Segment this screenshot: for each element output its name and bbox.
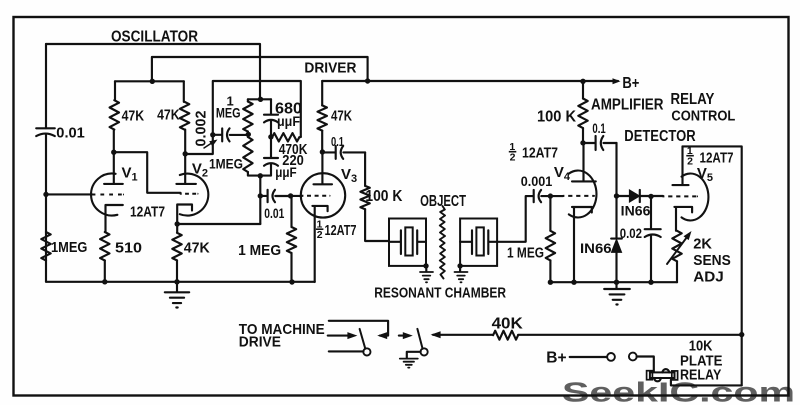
node G 0.002 junction <box>210 132 215 137</box>
svg-text:B+: B+ <box>622 75 639 92</box>
node line B / 47K rail <box>150 79 155 84</box>
svg-text:μμF: μμF <box>277 113 300 129</box>
svg-text:0.01: 0.01 <box>264 205 284 221</box>
tube V3 cathode <box>312 206 327 282</box>
resistor 1 MEG feedback lower <box>247 134 249 137</box>
resistor 1 MEG feedback upper <box>258 97 263 102</box>
capacitor 220 uuF <box>270 137 272 158</box>
node B feedback bottom <box>258 173 263 178</box>
switch S2 pivot and blade <box>421 348 428 355</box>
node V2 cathode <box>175 221 180 226</box>
tube V1 grid (dashed) <box>93 194 123 196</box>
svg-text:IN66: IN66 <box>580 240 612 256</box>
tube V2 grid (dashed) <box>181 193 198 195</box>
svg-text:1 MEG: 1 MEG <box>507 246 544 262</box>
svg-text:SENS: SENS <box>693 252 731 269</box>
tube V5 envelope <box>682 174 709 221</box>
tube V1 plate <box>104 183 123 185</box>
svg-text:DRIVE: DRIVE <box>239 333 281 350</box>
resistor 470K <box>272 133 299 141</box>
capacitor 0.002 coupling <box>213 134 222 136</box>
svg-text:RESONANT CHAMBER: RESONANT CHAMBER <box>374 286 506 302</box>
diode 1N66 shunt <box>615 196 617 238</box>
svg-text:RELAY: RELAY <box>680 366 721 383</box>
svg-text:47K: 47K <box>157 107 180 124</box>
object wavy wall <box>440 206 445 279</box>
tube V2 envelope <box>180 174 209 216</box>
node V3 plate <box>320 149 325 154</box>
leader arrow 0.002 <box>204 142 214 149</box>
tube V3 grid (dashed) <box>302 195 330 197</box>
tube V3 envelope <box>301 173 345 217</box>
switch S1 pivot and blade <box>363 348 370 355</box>
svg-text:ADJ: ADJ <box>693 268 724 285</box>
svg-text:0.02: 0.02 <box>620 225 642 241</box>
wire B+ rail <box>322 80 618 82</box>
node right box ground <box>457 263 462 268</box>
svg-text:100 K: 100 K <box>537 109 576 126</box>
svg-text:1MEG: 1MEG <box>209 156 243 172</box>
ground left box <box>425 266 427 272</box>
node diode junction <box>614 193 619 198</box>
wire V5 plate to relay rail <box>683 146 742 385</box>
node V3 grid <box>288 193 293 198</box>
node V4 grid <box>548 193 553 198</box>
svg-text:510: 510 <box>115 240 142 257</box>
wire chamber output <box>497 196 533 242</box>
svg-text:47K: 47K <box>184 240 210 257</box>
wire V3 grid lead <box>291 195 302 197</box>
relay contact right <box>629 353 637 361</box>
capacitor 0.1 V4 output <box>583 142 595 144</box>
wire oscillator ground rail <box>46 281 315 283</box>
capacitor 0.02 <box>650 196 652 229</box>
node V4 plate <box>580 140 585 145</box>
tube V4 cathode <box>572 207 592 282</box>
resistor 100K amplifier plate load <box>582 81 584 98</box>
wire oscillator feedback top line A <box>46 44 260 99</box>
wire contact to coil <box>637 357 654 372</box>
ground right box <box>459 266 461 272</box>
svg-text:12AT7: 12AT7 <box>130 204 165 221</box>
ground S2 <box>400 359 418 365</box>
node 0.01 V3 coupling left <box>258 193 263 198</box>
capacitor 680 uuF <box>270 99 272 114</box>
node left box ground <box>423 263 428 268</box>
node V2 plate <box>183 151 188 156</box>
wire left input vertical <box>45 44 47 282</box>
svg-text:IN66: IN66 <box>621 203 651 219</box>
node M feedback mid <box>246 132 251 137</box>
svg-text:1MEG: 1MEG <box>51 239 87 256</box>
svg-text:12AT7: 12AT7 <box>700 150 734 167</box>
wire S2 to ground <box>407 352 421 359</box>
ground oscillator <box>176 282 178 292</box>
switch S2 input arrow <box>399 335 406 337</box>
svg-text:RELAY: RELAY <box>671 91 715 108</box>
svg-text:12AT7: 12AT7 <box>325 222 357 239</box>
tube V4 envelope <box>569 171 597 218</box>
wire detector ground rail <box>550 281 677 283</box>
svg-text:47K: 47K <box>122 108 145 125</box>
svg-text:100 K: 100 K <box>365 188 403 205</box>
diode 1N66 series <box>617 195 630 197</box>
relay contact left <box>607 353 615 361</box>
wire V1 grid lead <box>46 193 93 195</box>
tube V5 grid (dashed) <box>663 195 697 197</box>
switch S1 middle terminal arrow <box>328 335 350 337</box>
svg-text:47K: 47K <box>331 108 352 125</box>
svg-text:μμF: μμF <box>275 164 297 180</box>
potentiometer 2K sens adj <box>672 231 681 261</box>
resistor R 47K V1 plate load <box>114 81 116 100</box>
svg-text:CONTROL: CONTROL <box>671 109 735 125</box>
tube V4 grid (dashed) <box>563 195 594 197</box>
wire V2 plate to 0.002 <box>185 135 213 154</box>
resistor 40K <box>493 331 518 340</box>
capacitor 0.1 V3 output <box>322 151 335 153</box>
tube V1 envelope <box>91 173 117 215</box>
node 40K / relay rail <box>739 332 744 337</box>
tube V4 plate <box>572 143 596 182</box>
svg-text:B+: B+ <box>546 349 566 366</box>
wire grid-feedback rail y81 <box>213 81 301 137</box>
capacitor 0.01 V3 coupling <box>260 195 267 197</box>
crystal right <box>460 230 472 254</box>
resistor 510 cathode <box>100 232 109 261</box>
svg-text:2: 2 <box>317 229 323 241</box>
wire V2 cathode to 0.01 node <box>177 223 260 225</box>
node 0.02 junction <box>648 194 653 199</box>
capacitor 0.001 <box>534 190 541 202</box>
ground detector <box>615 282 617 289</box>
resistor 1 MEG V3 grid leak <box>290 196 292 227</box>
wire line B to driver rail <box>152 57 368 81</box>
tube V5 plate <box>673 146 689 185</box>
switch S1 upper terminal with return arrow <box>329 321 388 336</box>
transducer box right <box>460 219 497 266</box>
tube V2 plate <box>176 183 196 185</box>
wire node B down to 0.01 <box>259 176 261 224</box>
tube V1 cathode <box>106 205 123 232</box>
resistor 1 MEG V4 grid leak <box>549 196 551 231</box>
resistor R 47K V2 plate load <box>183 81 185 102</box>
svg-text:2K: 2K <box>693 236 712 253</box>
wire down to diode node <box>615 143 617 196</box>
tube V5 cathode <box>674 207 692 231</box>
resistor 47K driver plate load <box>321 81 323 105</box>
capacitor 0.01 input <box>36 128 55 136</box>
svg-text:1 MEG: 1 MEG <box>238 242 281 259</box>
resistor 47K V2 cathode <box>176 224 178 233</box>
node D 680/470K <box>268 134 273 139</box>
svg-text:0.1: 0.1 <box>331 134 344 149</box>
crystal left <box>389 230 401 254</box>
svg-text:0.002: 0.002 <box>194 111 210 147</box>
node V1 plate / coupling <box>111 150 116 155</box>
svg-text:DRIVER: DRIVER <box>304 61 356 77</box>
tube V3 plate <box>314 152 333 184</box>
switch S1 lower terminal <box>329 350 364 352</box>
wire 47K plate rail <box>115 80 184 82</box>
wire coupling V1 plate to V2 grid <box>114 152 181 193</box>
tube V2 cathode <box>177 205 192 225</box>
svg-text:2: 2 <box>687 156 693 168</box>
svg-text:DETECTOR: DETECTOR <box>624 128 696 145</box>
resistor 100K driver out <box>364 152 366 186</box>
svg-text:2: 2 <box>510 152 516 164</box>
svg-text:AMPLIFIER: AMPLIFIER <box>591 97 664 114</box>
svg-text:12AT7: 12AT7 <box>522 145 558 162</box>
wire coil to rail <box>671 380 742 386</box>
svg-text:0.001: 0.001 <box>521 173 553 189</box>
transducer box left <box>389 219 426 266</box>
svg-text:MEG: MEG <box>216 105 241 121</box>
resistor 1MEG V1 grid <box>41 232 50 261</box>
node V1 grid tap <box>43 192 48 197</box>
svg-text:0.01: 0.01 <box>56 125 85 142</box>
wire 40K line <box>433 334 742 336</box>
svg-text:0.1: 0.1 <box>592 120 605 136</box>
relay coil 10K <box>650 372 675 378</box>
svg-text:SeekIC.com: SeekIC.com <box>562 377 795 406</box>
wire B+ to contacts <box>570 356 607 358</box>
svg-text:40K: 40K <box>492 315 524 332</box>
